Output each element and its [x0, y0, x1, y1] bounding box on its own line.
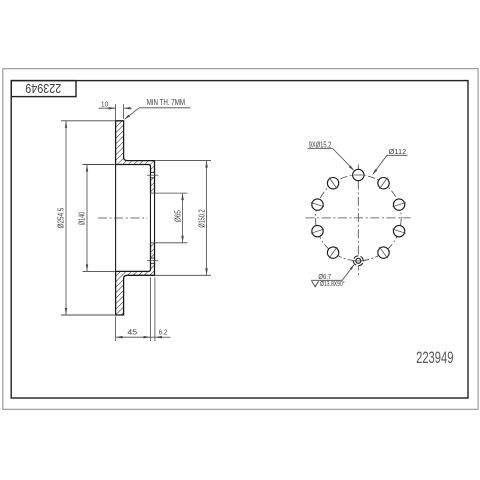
- svg-text:Ø140: Ø140: [78, 212, 87, 226]
- svg-text:Ø65: Ø65: [174, 210, 183, 223]
- svg-text:Ø150.2: Ø150.2: [198, 209, 207, 228]
- svg-text:10: 10: [101, 100, 108, 109]
- svg-text:223949: 223949: [25, 81, 61, 96]
- svg-text:Ø112: Ø112: [389, 147, 407, 156]
- svg-text:Ø254.5: Ø254.5: [57, 207, 66, 228]
- svg-text:Ø13.8X90°: Ø13.8X90°: [320, 279, 345, 288]
- svg-text:223949: 223949: [416, 348, 453, 367]
- svg-text:45: 45: [127, 328, 137, 337]
- svg-text:MIN TH. 7MM: MIN TH. 7MM: [147, 98, 185, 107]
- svg-text:6.2: 6.2: [159, 328, 168, 337]
